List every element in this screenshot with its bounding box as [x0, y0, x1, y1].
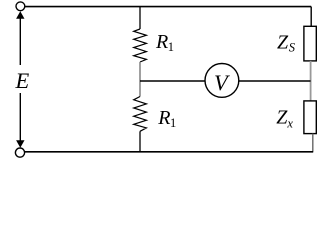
svg-text:1: 1 [168, 40, 174, 54]
svg-text:R: R [155, 31, 168, 53]
wire top horizontal [25, 6, 311, 8]
svg-text:E: E [15, 68, 30, 93]
svg-text:Z: Z [277, 32, 289, 54]
wire middle branch top [139, 7, 141, 29]
svg-text:Z: Z [276, 106, 288, 128]
impedance Zs box [304, 26, 316, 61]
wire right vertical to Zs [310, 7, 312, 27]
svg-text:V: V [214, 70, 230, 95]
svg-text:1: 1 [170, 116, 176, 130]
svg-text:R: R [157, 107, 170, 129]
wire bridge left [140, 80, 205, 82]
svg-text:S: S [289, 41, 296, 55]
terminal top-left [16, 2, 25, 11]
wire bottom horizontal [25, 151, 314, 153]
svg-text:x: x [286, 116, 293, 130]
wire middle branch mid [139, 62, 141, 97]
wire middle branch bottom [139, 131, 141, 152]
wire between Zs and Zx [310, 61, 312, 101]
arrow down at source E [19, 93, 21, 141]
impedance Zx box [304, 101, 316, 134]
resistor R1 upper [134, 29, 147, 62]
wire below Zx [312, 134, 314, 152]
arrow up at source E [19, 18, 21, 66]
wire bridge right [239, 80, 311, 82]
resistor R1 lower [134, 97, 147, 132]
terminal bottom-left [15, 148, 24, 157]
voltmeter V [205, 64, 239, 98]
